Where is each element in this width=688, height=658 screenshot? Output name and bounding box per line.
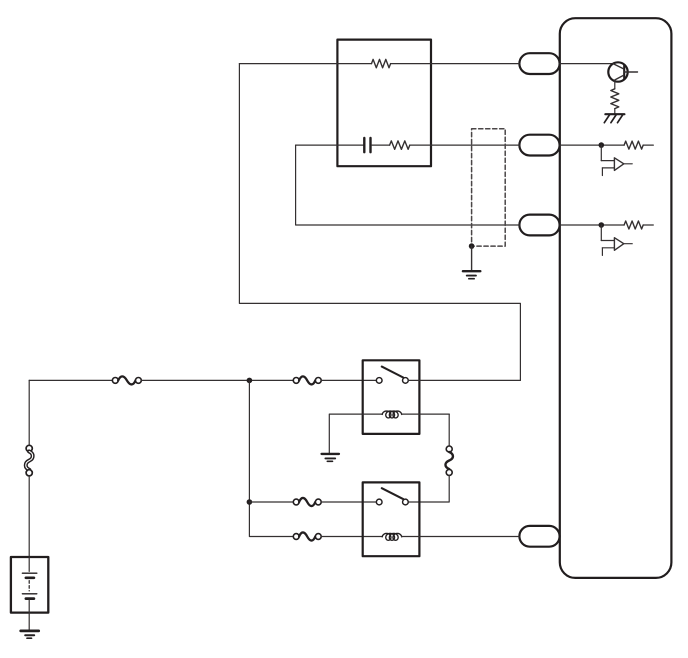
connector pin 1 (oval terminal) — [519, 53, 559, 74]
relay K2 switch contact left — [376, 499, 382, 505]
relay K2 switch blade — [382, 488, 403, 499]
node J5 (shield junction dot) — [469, 243, 475, 249]
node A (junction dot) — [247, 378, 253, 384]
buffer U3 (input buffer) — [601, 225, 632, 255]
wire pin1 row left segment — [239, 63, 371, 65]
relay K1 switch contact left — [376, 378, 382, 384]
wire K2 coil to pin4 — [402, 536, 520, 538]
ground G2 (earth) — [463, 271, 480, 279]
resistor R3a — [624, 221, 643, 229]
wire C1 to R5 — [372, 144, 390, 146]
fusible link FL1 — [26, 445, 33, 476]
node J3 (junction dot) — [599, 222, 605, 228]
wire R1 to pin1 — [391, 63, 520, 65]
component box B1 (noise filter) — [337, 40, 431, 167]
relay K2 (box) — [363, 482, 420, 556]
capacitor C1 — [364, 138, 370, 152]
wire pin2 into module — [560, 144, 624, 146]
relay K1 coil L1 — [363, 411, 450, 418]
wire K1 switch out — [408, 379, 520, 381]
wire feed riser node A down — [249, 380, 293, 536]
wire F3 to relay K2 — [321, 501, 376, 503]
transistor Q1 — [608, 62, 637, 81]
wire transistor emitter to resistor R2 — [614, 80, 616, 89]
wire F4 to relay K2 coil — [321, 536, 382, 538]
connector pin 4 (oval terminal) — [519, 526, 559, 547]
connector pin 3 (oval terminal) — [519, 215, 559, 236]
wire loop pin1 row: left riser — [239, 64, 520, 381]
wire pin3 into module — [560, 224, 624, 226]
wire battery riser — [28, 380, 30, 445]
wire R5 to pin2 — [410, 144, 520, 146]
wire pin1 to transistor base — [560, 63, 613, 65]
relay K1 switch blade — [382, 367, 403, 378]
wire pin3 row loop — [296, 145, 520, 225]
wire shield to ground — [471, 246, 473, 271]
relay K1 (box) — [363, 360, 420, 434]
fusible link FL2 — [445, 446, 453, 475]
shielded area D1 (dashed box) — [472, 129, 506, 246]
wire F1 to node A — [141, 379, 293, 381]
wire FL2 to K2 switch out — [408, 475, 449, 502]
resistor R2 — [611, 89, 619, 109]
wire row2 left segment — [296, 144, 364, 146]
fuse F4 — [293, 532, 321, 540]
wire R3a stub — [643, 224, 653, 226]
wire K1 coil left to ground — [329, 414, 362, 453]
wire FL1 to battery — [28, 476, 30, 557]
ground G1 (chassis) — [604, 114, 624, 123]
wire K1 coil to fusible link FL2 — [448, 414, 450, 446]
wire R2a stub — [643, 144, 653, 146]
wire node B to fuse F3 — [249, 501, 293, 503]
buffer U2 (input buffer) — [601, 145, 632, 175]
relay K2 switch contact right — [403, 499, 409, 505]
fuse F2 — [293, 376, 321, 384]
battery BT1 — [11, 557, 48, 630]
ground G4 (earth) — [322, 454, 339, 461]
wire R2 to ground — [614, 109, 616, 114]
ground G3 (battery earth) — [21, 631, 39, 638]
wire battery bus horizontal — [29, 379, 112, 381]
resistor R1 — [372, 59, 391, 67]
node J2 (junction dot) — [599, 142, 605, 148]
relay K1 switch contact right — [403, 378, 409, 384]
resistor R2a — [624, 141, 643, 149]
module M1 (control unit, rounded outline) — [560, 18, 672, 578]
fuse F1 — [112, 376, 141, 384]
connector pin 2 (oval terminal) — [519, 135, 559, 156]
relay K2 coil L2 — [382, 533, 402, 540]
node B (junction dot) — [247, 499, 253, 505]
resistor R5 — [390, 141, 410, 149]
fuse F3 — [293, 498, 321, 506]
wire F2 to relay K1 — [321, 379, 376, 381]
